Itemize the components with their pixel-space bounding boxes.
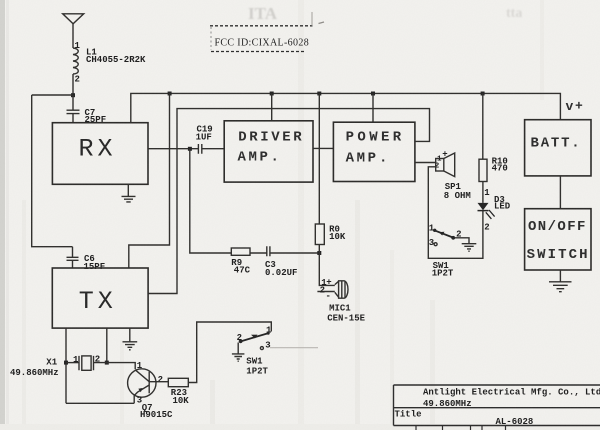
node C19 junction [188,147,192,151]
node mic junction [317,251,321,255]
pin 1 of SW1T [429,223,435,233]
ground ON/OFF [549,282,572,292]
resistor R23 [168,378,188,386]
node X1 left junction [64,361,68,365]
crystal X1 [79,356,94,370]
ref label Q7 H9015C [140,403,173,420]
wire speaker return down [428,167,483,258]
power rail V+ [131,93,561,122]
value label L1 CH4055-2R2K [86,48,146,66]
title text AL-6028 [496,417,534,427]
wire L1 to node A [72,74,74,95]
wire C19 node down to R9 row [190,149,232,253]
block BATT [525,120,591,176]
value label R9 47C [231,258,250,276]
title text Title [395,409,422,419]
pin 2 of X1 [95,354,100,364]
capacitor C7 [67,110,80,113]
pin 3 of SW1B [260,340,270,350]
wire R9 to C3 [250,252,267,254]
block ON/OFF SWITCH [525,209,591,270]
wire SW1B pin2 to ground [237,343,239,354]
wire TX power feed [129,93,170,268]
wire R0 feed [318,93,320,224]
value label MIC1 CEN-15E [327,303,365,323]
speaker SP1 [436,153,455,177]
wire node to crystal [66,362,79,364]
pin 2 of D3 [484,222,489,232]
wire power amp feed [372,93,374,122]
wire TX right leg to X1 pin2 node [106,328,108,363]
pin 2 of SW1T [456,229,461,239]
pin 2 of SP1 [435,163,440,171]
node rail-power junction [371,92,375,96]
LED D3 [478,203,495,219]
block TX [52,268,148,328]
wire second rail TX out to PA out [148,109,429,294]
ground SW1B [232,354,245,361]
wire C3 to mic node [270,252,319,254]
pin 1 of SP1 [437,155,442,163]
wire antenna to L1 [72,24,74,48]
pin 3 of Q7 [137,396,142,406]
watermark smudge right [506,6,522,21]
wire TX left leg to X1 node [65,328,67,403]
wire Q7 emitter return [66,402,134,404]
block POWER AMP U-PA [333,122,415,181]
value label R0 10K [329,224,346,242]
pin 1 + of MIC1 [321,277,331,288]
pin 1 of X1 [73,355,79,365]
wire SW1T pin2 to ground [455,238,469,244]
pin 1 of SW1B [266,326,272,336]
ground SW1T [462,244,477,252]
wire crystal to Q7 base [94,363,136,370]
wire C19 to driver amp [202,148,224,150]
value label C3 0.02UF [265,260,297,278]
pin 1 of Q7 [137,361,143,371]
capacitor C19 [198,144,201,154]
label FCC ID CIXAL-6028 [215,37,310,48]
ground under RX [122,184,136,202]
wire R0 to mic node [318,245,320,254]
wire PA to speaker [415,162,436,164]
wire ON/OFF to ground [559,270,561,282]
resistor R0 [315,224,324,245]
node rail-R0 junction [317,92,321,96]
ref label SW1 1P2T top [432,261,454,279]
microphone MIC1 [335,281,348,298]
node rail-R10 junction [481,92,485,96]
pin 2 of Q7 [158,375,163,385]
antenna ANT [63,14,84,24]
node rail-TX junction [168,92,172,96]
wire BATT to ON/OFF switch [559,176,561,209]
block DRIVER AMP U-DRV [224,121,313,182]
pin 2 of L1 [75,75,80,85]
wire driver amp feed [271,93,273,121]
wire mic node to MIC1 [317,253,334,292]
wire driver to power amp [313,147,333,149]
wire Q7 collector to R23 [156,381,168,383]
value label C19 1UF [196,125,213,143]
switch SW1B arm [239,332,270,343]
wire left bypass down [32,95,73,247]
capacitor C3 [267,246,270,256]
pin 1 of D3 [484,188,490,198]
ref label SW1 1P2T bottom [246,357,268,377]
pin 3 of SW1T [429,238,437,248]
value label D3 LED [494,195,511,211]
title text frequency [423,399,472,409]
value label C7 25PF [85,108,107,125]
node rail-driver junction [270,92,274,96]
pin 2 - of MIC1 [320,285,331,301]
block RX [52,123,148,185]
wire RX output [148,148,198,150]
resistor R10 [479,159,487,181]
ref label X1 49.860MHz [10,358,59,379]
watermark smudge left [248,4,278,23]
pin 1 of L1 [75,41,81,51]
inductor L1 [73,48,78,74]
wire faint from SW1B pin3 [270,347,318,349]
node X1 right junction [105,361,109,365]
ref label SP1 8 OHM [444,182,471,201]
wire R10 feed [482,93,484,159]
value label R23 10K [171,388,190,406]
ground under TX [123,328,138,350]
value label C6 15PF [84,254,106,272]
pin 2 of SW1B [237,333,242,343]
switch SW1T arm [433,229,455,240]
wire node A left [32,94,73,96]
wire C7 to RX [72,114,74,123]
pin + of SP1 [442,150,447,160]
title text company [423,387,600,397]
capacitor C6 [67,247,79,268]
net label V+ [566,99,584,115]
value label R10 470 [492,157,508,174]
wire R23 up to SW1B pin1 [188,322,271,383]
title block [394,385,600,430]
FCC ID box [210,26,313,52]
node A junction [71,93,75,97]
resistor R9 [231,248,250,255]
wire node A to C7 [72,95,74,110]
wire R10 to LED [482,182,484,203]
transistor Q7 [128,369,156,404]
